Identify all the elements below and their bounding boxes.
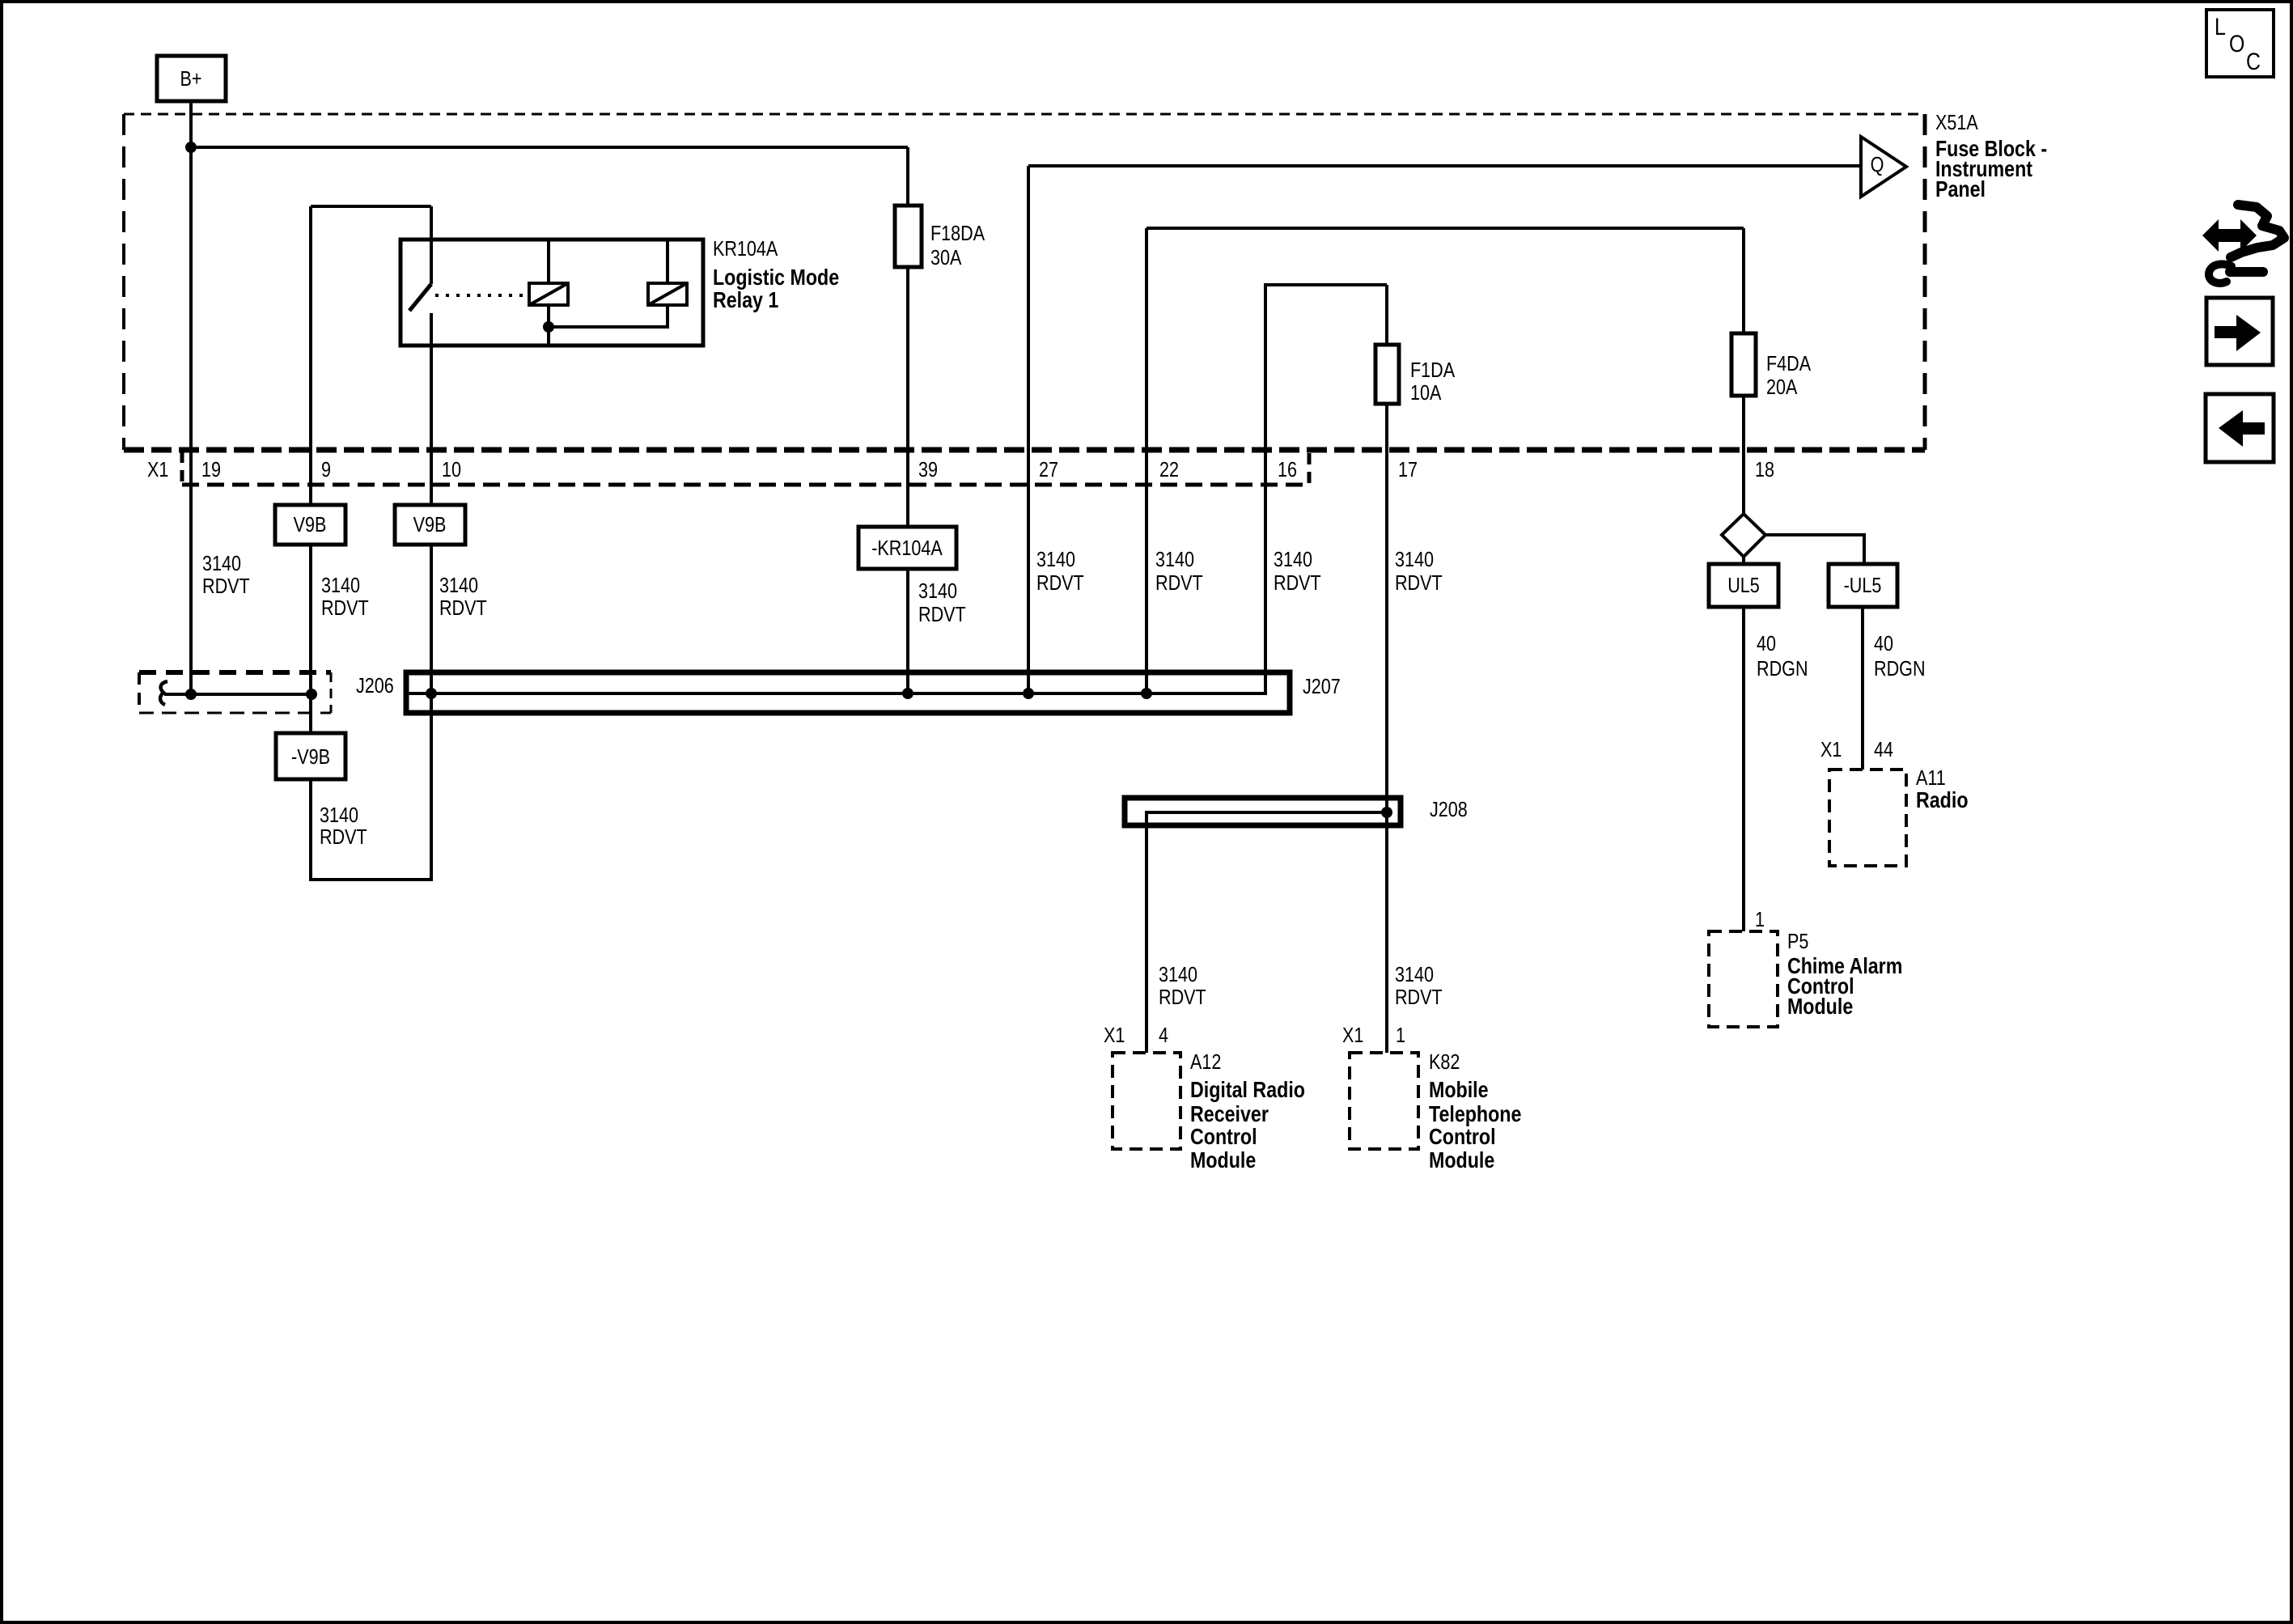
- svg-text:39: 39: [918, 458, 938, 481]
- svg-text:3140: 3140: [1395, 963, 1434, 986]
- svg-text:10A: 10A: [1410, 381, 1441, 405]
- svg-text:X1: X1: [147, 458, 168, 481]
- svg-text:J207: J207: [1303, 675, 1341, 698]
- svg-text:-KR104A: -KR104A: [871, 536, 943, 560]
- svg-text:Digital Radio: Digital Radio: [1190, 1078, 1305, 1102]
- svg-text:Relay 1: Relay 1: [713, 288, 778, 312]
- svg-text:RDVT: RDVT: [1395, 986, 1443, 1009]
- svg-text:3140: 3140: [1036, 548, 1075, 571]
- svg-text:18: 18: [1755, 458, 1774, 481]
- svg-text:X1: X1: [1104, 1024, 1125, 1047]
- svg-text:RDVT: RDVT: [202, 575, 250, 598]
- svg-text:KR104A: KR104A: [713, 237, 778, 261]
- svg-text:X1: X1: [1820, 738, 1842, 761]
- svg-text:1: 1: [1396, 1024, 1405, 1047]
- svg-text:3140: 3140: [321, 574, 360, 597]
- svg-text:RDVT: RDVT: [320, 825, 367, 849]
- svg-text:J206: J206: [356, 674, 394, 698]
- svg-text:3140: 3140: [1395, 548, 1434, 571]
- svg-text:10: 10: [442, 458, 461, 481]
- svg-text:Module: Module: [1429, 1148, 1494, 1172]
- svg-text:Panel: Panel: [1935, 177, 1986, 201]
- svg-text:RDVT: RDVT: [1036, 571, 1084, 595]
- svg-text:RDVT: RDVT: [1274, 571, 1321, 595]
- svg-text:3140: 3140: [918, 579, 957, 603]
- svg-text:Control: Control: [1190, 1125, 1257, 1149]
- svg-text:A11: A11: [1916, 766, 1946, 790]
- svg-text:40: 40: [1757, 632, 1776, 655]
- svg-text:-UL5: -UL5: [1844, 574, 1882, 597]
- svg-text:Telephone: Telephone: [1429, 1102, 1521, 1126]
- svg-text:V9B: V9B: [413, 513, 447, 536]
- svg-text:16: 16: [1278, 458, 1297, 481]
- svg-text:RDGN: RDGN: [1757, 657, 1808, 681]
- svg-text:P5: P5: [1787, 930, 1808, 953]
- svg-text:Control: Control: [1429, 1125, 1496, 1149]
- svg-text:3140: 3140: [320, 804, 358, 827]
- svg-text:Module: Module: [1787, 994, 1853, 1019]
- svg-text:B+: B+: [180, 67, 201, 91]
- svg-text:3140: 3140: [1159, 963, 1197, 986]
- svg-text:L: L: [2215, 13, 2226, 40]
- svg-text:RDVT: RDVT: [918, 603, 966, 626]
- svg-text:RDVT: RDVT: [1395, 571, 1443, 595]
- svg-text:3140: 3140: [1274, 548, 1312, 571]
- svg-text:Receiver: Receiver: [1190, 1102, 1269, 1126]
- svg-text:1: 1: [1755, 908, 1765, 931]
- svg-text:UL5: UL5: [1727, 574, 1760, 597]
- svg-text:RDVT: RDVT: [321, 596, 369, 620]
- svg-text:17: 17: [1398, 458, 1418, 481]
- svg-text:Module: Module: [1190, 1148, 1256, 1172]
- svg-text:RDVT: RDVT: [439, 596, 487, 620]
- svg-text:K82: K82: [1429, 1050, 1460, 1074]
- svg-text:C: C: [2246, 48, 2261, 75]
- svg-text:3140: 3140: [202, 552, 241, 575]
- svg-text:J208: J208: [1430, 798, 1468, 821]
- svg-text:Mobile: Mobile: [1429, 1078, 1489, 1102]
- svg-text:F18DA: F18DA: [930, 222, 985, 245]
- svg-text:RDGN: RDGN: [1874, 657, 1925, 681]
- svg-text:X1: X1: [1342, 1024, 1363, 1047]
- svg-text:V9B: V9B: [294, 513, 327, 536]
- svg-text:22: 22: [1159, 458, 1179, 481]
- svg-text:A12: A12: [1190, 1050, 1221, 1074]
- svg-text:Radio: Radio: [1916, 788, 1969, 812]
- svg-text:3140: 3140: [1155, 548, 1194, 571]
- svg-text:Logistic Mode: Logistic Mode: [713, 265, 839, 290]
- svg-text:3140: 3140: [439, 574, 478, 597]
- svg-text:RDVT: RDVT: [1159, 986, 1206, 1009]
- svg-text:40: 40: [1874, 632, 1893, 655]
- svg-text:4: 4: [1159, 1024, 1168, 1047]
- svg-text:20A: 20A: [1766, 375, 1797, 399]
- svg-text:44: 44: [1874, 738, 1893, 761]
- svg-text:F4DA: F4DA: [1766, 352, 1811, 375]
- svg-text:30A: 30A: [930, 246, 961, 269]
- svg-text:Q: Q: [1871, 153, 1884, 176]
- svg-text:X51A: X51A: [1935, 111, 1978, 134]
- svg-text:19: 19: [201, 458, 221, 481]
- svg-text:9: 9: [321, 458, 331, 481]
- svg-text:RDVT: RDVT: [1155, 571, 1203, 595]
- svg-text:27: 27: [1039, 458, 1058, 481]
- svg-text:F1DA: F1DA: [1410, 358, 1455, 382]
- svg-text:-V9B: -V9B: [291, 745, 330, 769]
- svg-text:O: O: [2229, 30, 2244, 57]
